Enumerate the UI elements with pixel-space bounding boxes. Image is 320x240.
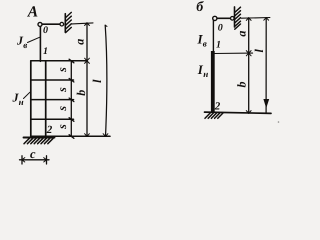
svg-text:А: А	[27, 4, 38, 21]
svg-text:в: в	[203, 39, 207, 49]
svg-text:в: в	[23, 40, 27, 50]
svg-text:a: a	[73, 39, 87, 45]
svg-text:a: a	[235, 31, 249, 37]
svg-text:0: 0	[43, 25, 48, 36]
svg-text:2: 2	[46, 124, 53, 136]
svg-text:l: l	[252, 48, 266, 52]
svg-text:s: s	[55, 87, 69, 93]
svg-text:1: 1	[216, 40, 221, 51]
svg-text:c: c	[30, 147, 36, 161]
svg-text:2: 2	[214, 101, 221, 113]
svg-text:н: н	[203, 69, 208, 79]
svg-text:s: s	[55, 124, 69, 130]
svg-text:s: s	[55, 106, 69, 112]
svg-text:0: 0	[218, 23, 223, 34]
svg-text:1: 1	[43, 46, 48, 57]
svg-text:н: н	[19, 97, 24, 107]
svg-text:b: b	[74, 90, 88, 96]
svg-text:s: s	[55, 67, 69, 73]
svg-text:б: б	[196, 0, 204, 15]
svg-text:l: l	[90, 79, 104, 83]
svg-text:b: b	[235, 82, 249, 88]
